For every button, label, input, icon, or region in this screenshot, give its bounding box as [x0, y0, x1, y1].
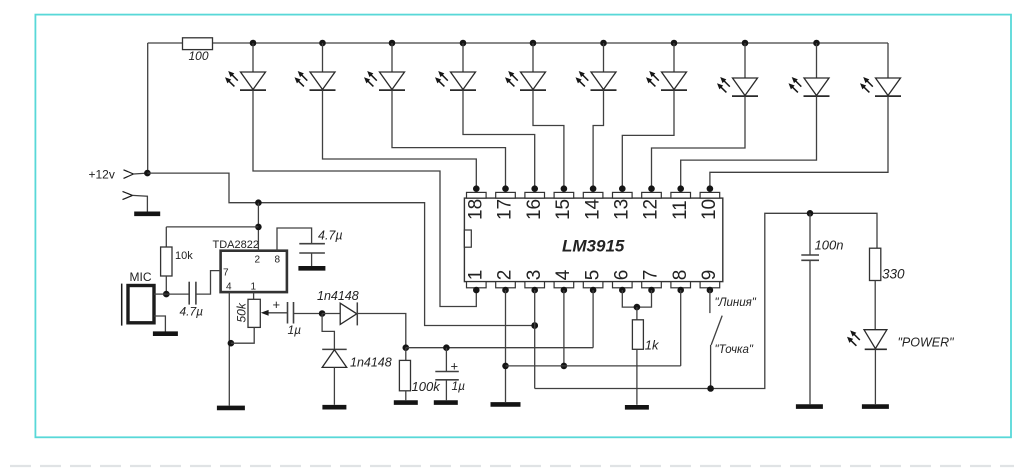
svg-text:4: 4: [226, 282, 232, 293]
svg-text:15: 15: [553, 199, 574, 220]
svg-text:"POWER": "POWER": [898, 336, 955, 350]
svg-text:5: 5: [582, 270, 603, 281]
svg-text:18: 18: [466, 199, 487, 220]
svg-text:1n4148: 1n4148: [317, 289, 359, 303]
svg-text:1k: 1k: [645, 337, 660, 352]
svg-text:16: 16: [524, 199, 545, 220]
svg-text:11: 11: [670, 200, 691, 220]
svg-text:1: 1: [466, 270, 487, 281]
svg-text:100k: 100k: [412, 379, 442, 394]
svg-text:6: 6: [612, 270, 633, 281]
svg-text:13: 13: [612, 199, 633, 220]
svg-text:2: 2: [255, 255, 261, 266]
svg-text:2: 2: [495, 270, 516, 281]
svg-text:10k: 10k: [175, 250, 193, 262]
svg-text:9: 9: [699, 270, 720, 281]
svg-text:4.7µ: 4.7µ: [318, 229, 343, 243]
svg-text:"Линия": "Линия": [715, 297, 757, 309]
svg-text:10: 10: [699, 199, 720, 220]
svg-text:14: 14: [582, 198, 603, 220]
svg-text:+: +: [451, 358, 459, 373]
svg-text:330: 330: [882, 267, 905, 282]
svg-text:7: 7: [223, 268, 229, 279]
svg-text:1µ: 1µ: [452, 379, 466, 393]
svg-text:LM3915: LM3915: [562, 237, 625, 256]
svg-text:1n4148: 1n4148: [350, 356, 392, 370]
svg-text:8: 8: [275, 255, 281, 266]
svg-text:TDA2822: TDA2822: [213, 239, 259, 251]
svg-text:17: 17: [495, 199, 516, 220]
svg-text:8: 8: [670, 270, 691, 281]
svg-text:MIC: MIC: [130, 270, 152, 284]
svg-text:+12v: +12v: [89, 168, 115, 182]
svg-text:1µ: 1µ: [288, 323, 302, 337]
svg-text:3: 3: [524, 270, 545, 281]
svg-text:4: 4: [553, 269, 574, 280]
svg-text:100n: 100n: [815, 238, 844, 253]
svg-text:+: +: [273, 297, 281, 312]
svg-text:50k: 50k: [235, 302, 249, 322]
svg-text:4.7µ: 4.7µ: [180, 305, 204, 319]
svg-text:1: 1: [251, 282, 257, 293]
svg-text:100: 100: [189, 49, 209, 63]
svg-text:12: 12: [641, 199, 662, 220]
svg-text:"Точка": "Точка": [715, 344, 754, 356]
svg-text:7: 7: [641, 270, 662, 281]
